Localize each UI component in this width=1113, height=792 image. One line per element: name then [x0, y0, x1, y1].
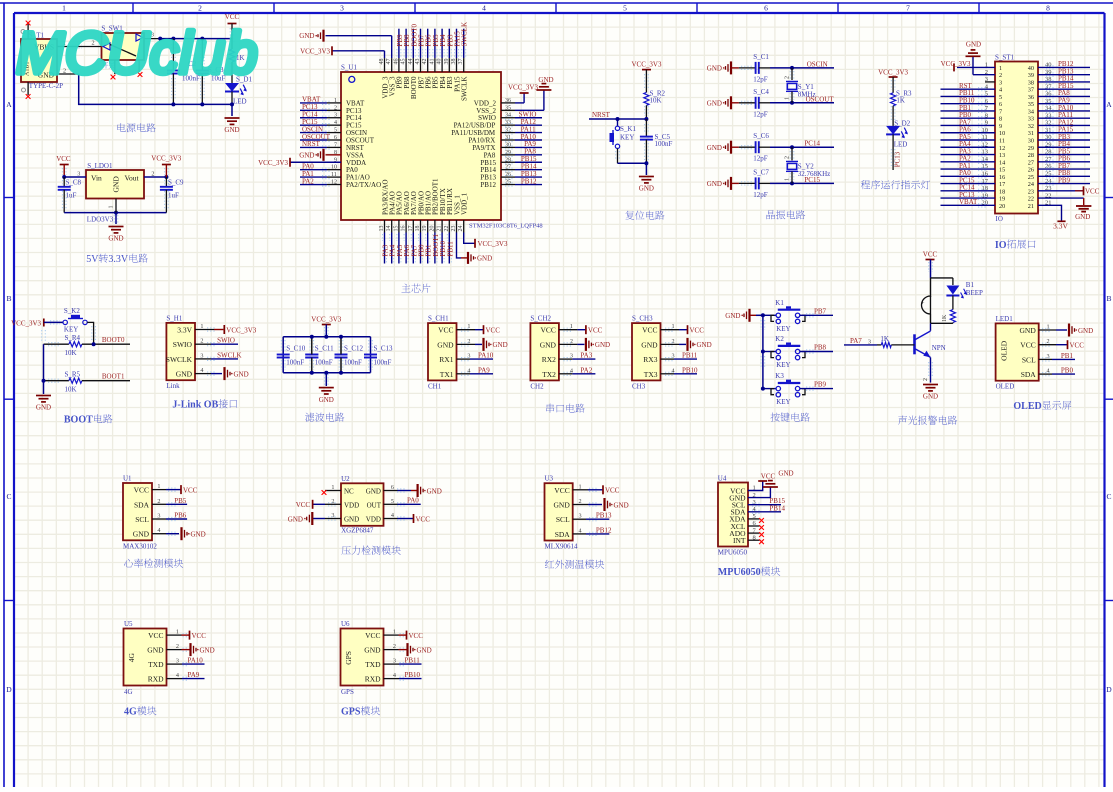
- svg-text:U3: U3: [545, 475, 554, 483]
- svg-text:CH2: CH2: [530, 382, 544, 390]
- svg-text:NRST: NRST: [302, 140, 321, 148]
- svg-text:100nF: 100nF: [655, 140, 673, 148]
- svg-text:S_C8: S_C8: [66, 179, 82, 187]
- svg-text:PA7: PA7: [850, 337, 862, 345]
- svg-text:1: 1: [785, 97, 791, 100]
- svg-text:VCC_3V3: VCC_3V3: [478, 240, 508, 248]
- svg-text:S_CH3: S_CH3: [632, 315, 653, 323]
- svg-text:GND: GND: [191, 531, 206, 539]
- svg-text:8: 8: [1046, 4, 1050, 13]
- svg-text:2: 2: [785, 76, 791, 79]
- svg-text:TXD: TXD: [365, 660, 381, 669]
- svg-text:VCC: VCC: [642, 326, 657, 335]
- svg-text:S_ST1: S_ST1: [995, 54, 1015, 62]
- svg-text:39: 39: [1028, 72, 1034, 79]
- svg-text:10K: 10K: [65, 386, 77, 394]
- svg-text:SCL: SCL: [556, 515, 570, 524]
- svg-text:VCC_3V3: VCC_3V3: [11, 320, 41, 328]
- svg-text:S_LDO1: S_LDO1: [87, 162, 113, 170]
- svg-text:S_CH1: S_CH1: [428, 315, 449, 323]
- svg-text:PC14: PC14: [804, 140, 820, 148]
- svg-text:3.3V: 3.3V: [1053, 221, 1068, 230]
- svg-text:GND: GND: [417, 646, 432, 654]
- svg-text:B: B: [1107, 294, 1112, 303]
- svg-text:PA0: PA0: [407, 497, 419, 505]
- svg-text:PB1: PB1: [1061, 352, 1074, 360]
- svg-text:28: 28: [1028, 152, 1034, 159]
- svg-text:U5: U5: [124, 620, 133, 628]
- svg-text:Link: Link: [166, 382, 180, 390]
- svg-text:SWIO: SWIO: [173, 340, 193, 349]
- svg-text:MPU6050: MPU6050: [718, 567, 761, 578]
- svg-text:PB12: PB12: [480, 181, 496, 189]
- svg-text:GND: GND: [966, 41, 981, 49]
- svg-text:S_U1: S_U1: [341, 64, 357, 72]
- svg-text:BOOT1: BOOT1: [102, 373, 125, 381]
- svg-text:4: 4: [482, 4, 486, 13]
- svg-text:K3: K3: [775, 372, 784, 380]
- svg-text:KEY: KEY: [776, 361, 790, 369]
- svg-text:33: 33: [1028, 116, 1034, 123]
- svg-text:VCC: VCC: [192, 632, 207, 640]
- svg-text:PB12: PB12: [596, 526, 612, 534]
- svg-text:GND: GND: [778, 470, 793, 478]
- svg-text:100nF: 100nF: [374, 359, 392, 367]
- svg-text:GND: GND: [641, 340, 658, 349]
- svg-text:GND: GND: [697, 341, 712, 349]
- svg-text:TX3: TX3: [644, 370, 658, 379]
- svg-text:38: 38: [1028, 79, 1034, 86]
- svg-text:GND: GND: [133, 530, 150, 539]
- svg-text:CH1: CH1: [428, 382, 442, 390]
- svg-text:22: 22: [1028, 196, 1034, 203]
- svg-text:1: 1: [109, 206, 115, 209]
- svg-text:VCC_3V3: VCC_3V3: [632, 61, 662, 69]
- svg-text:TXD: TXD: [148, 660, 164, 669]
- svg-text:OSCIN: OSCIN: [807, 60, 828, 68]
- svg-text:RX2: RX2: [542, 355, 556, 364]
- svg-text:VCC: VCC: [416, 515, 431, 523]
- svg-text:NRST: NRST: [592, 111, 611, 119]
- svg-text:9: 9: [999, 123, 1002, 130]
- svg-text:+: +: [921, 300, 925, 307]
- svg-text:VCC: VCC: [225, 13, 240, 21]
- svg-text:GND: GND: [614, 501, 629, 509]
- svg-text:GND: GND: [1075, 213, 1090, 221]
- svg-text:KEY: KEY: [776, 325, 790, 333]
- svg-text:PA9: PA9: [478, 366, 490, 374]
- svg-text:A: A: [6, 100, 12, 109]
- svg-text:PB10: PB10: [682, 366, 698, 374]
- svg-text:VCC_3V3: VCC_3V3: [878, 69, 908, 77]
- svg-text:PB10: PB10: [405, 671, 421, 679]
- svg-text:XGZP6847: XGZP6847: [341, 527, 374, 535]
- svg-text:1: 1: [785, 178, 791, 181]
- svg-text:VCC_3V3: VCC_3V3: [151, 155, 181, 163]
- svg-text:3: 3: [340, 4, 344, 13]
- svg-text:OLED: OLED: [996, 383, 1015, 391]
- svg-text:18: 18: [999, 188, 1005, 195]
- svg-text:GND: GND: [707, 144, 722, 152]
- svg-text:GND: GND: [538, 76, 553, 84]
- svg-text:PB5: PB5: [174, 497, 187, 505]
- svg-text:S_CH2: S_CH2: [530, 315, 551, 323]
- svg-text:16: 16: [999, 174, 1005, 181]
- svg-text:34: 34: [1028, 108, 1034, 115]
- svg-text:GND: GND: [299, 151, 314, 159]
- svg-text:MLX90614: MLX90614: [545, 543, 579, 551]
- svg-text:VCC: VCC: [923, 251, 938, 259]
- svg-text:GND: GND: [554, 501, 571, 510]
- svg-text:12pF: 12pF: [753, 110, 768, 118]
- svg-text:21: 21: [1028, 203, 1034, 210]
- svg-text:PB9: PB9: [814, 381, 827, 389]
- svg-text:GND: GND: [1020, 326, 1037, 335]
- svg-text:GND: GND: [707, 65, 722, 73]
- svg-text:SWCLK: SWCLK: [461, 77, 469, 102]
- svg-text:32.768KHz: 32.768KHz: [798, 170, 830, 178]
- svg-text:D: D: [6, 685, 12, 694]
- svg-text:RXD: RXD: [365, 675, 381, 684]
- svg-text:GND: GND: [299, 32, 314, 40]
- svg-text:GND: GND: [540, 340, 557, 349]
- svg-text:GND: GND: [366, 488, 381, 496]
- svg-text:100nF: 100nF: [315, 359, 333, 367]
- svg-text:VCC: VCC: [761, 473, 776, 481]
- svg-text:35: 35: [1028, 101, 1034, 108]
- svg-text:3.3V: 3.3V: [108, 254, 128, 265]
- svg-text:19: 19: [999, 196, 1005, 203]
- svg-text:VCC: VCC: [588, 327, 603, 335]
- svg-text:VCC_3V3: VCC_3V3: [300, 48, 330, 56]
- svg-text:RXD: RXD: [148, 675, 164, 684]
- svg-text:C: C: [7, 492, 12, 501]
- svg-text:20: 20: [999, 203, 1005, 210]
- svg-text:GND: GND: [224, 126, 239, 134]
- svg-text:12pF: 12pF: [753, 191, 768, 199]
- svg-text:3: 3: [868, 339, 871, 346]
- svg-text:VCC: VCC: [56, 155, 71, 163]
- svg-text:GND: GND: [147, 646, 164, 655]
- svg-text:SCL: SCL: [1022, 355, 1036, 364]
- svg-text:5V: 5V: [86, 254, 99, 265]
- svg-text:OLED: OLED: [1000, 340, 1009, 361]
- svg-text:NC: NC: [344, 488, 354, 496]
- svg-text:KEY: KEY: [64, 326, 78, 334]
- svg-text:GND: GND: [427, 487, 442, 495]
- svg-text:7: 7: [906, 4, 910, 13]
- svg-text:1K: 1K: [896, 97, 905, 105]
- svg-text:PA10: PA10: [478, 352, 494, 360]
- svg-text:4G: 4G: [124, 707, 137, 718]
- svg-text:5: 5: [623, 4, 627, 13]
- svg-text:10: 10: [999, 130, 1005, 137]
- svg-text:IO: IO: [996, 215, 1003, 223]
- svg-text:VDD: VDD: [366, 516, 381, 524]
- svg-text:GND: GND: [477, 254, 492, 262]
- svg-text:PB11: PB11: [446, 241, 454, 257]
- svg-text:STM32F103C8T6_LQFP48: STM32F103C8T6_LQFP48: [469, 223, 543, 230]
- svg-text:VCC: VCC: [541, 326, 556, 335]
- svg-text:S_K2: S_K2: [64, 307, 80, 315]
- svg-text:BOOT: BOOT: [64, 415, 93, 426]
- svg-text:TX2: TX2: [542, 370, 556, 379]
- svg-text:PB8: PB8: [814, 344, 827, 352]
- svg-text:4: 4: [999, 87, 1002, 94]
- svg-text:GND: GND: [437, 340, 454, 349]
- svg-text:17: 17: [999, 181, 1005, 188]
- svg-text:23: 23: [1028, 188, 1034, 195]
- svg-text:27: 27: [1028, 159, 1034, 166]
- svg-text:S_C1: S_C1: [753, 53, 769, 61]
- svg-text:29: 29: [1028, 145, 1034, 152]
- svg-text:GND: GND: [364, 646, 381, 655]
- svg-text:SWCLK: SWCLK: [166, 355, 193, 364]
- svg-text:Vout: Vout: [125, 174, 140, 183]
- svg-text:PB9: PB9: [1058, 176, 1071, 184]
- svg-text:GND: GND: [707, 100, 722, 108]
- svg-text:GND: GND: [344, 516, 359, 524]
- svg-text:15: 15: [999, 167, 1005, 174]
- svg-text:VCC_3V3: VCC_3V3: [226, 326, 256, 334]
- svg-text:VCC: VCC: [554, 486, 569, 495]
- svg-text:1uF: 1uF: [168, 192, 179, 200]
- svg-text:VDD: VDD: [344, 502, 359, 510]
- svg-text:7: 7: [999, 108, 1002, 115]
- svg-text:K1: K1: [775, 299, 784, 307]
- svg-text:8: 8: [999, 116, 1002, 123]
- svg-text:GND: GND: [36, 404, 51, 412]
- svg-text:3: 3: [999, 79, 1002, 86]
- svg-text:25: 25: [1028, 174, 1034, 181]
- svg-text:12: 12: [999, 145, 1005, 152]
- svg-text:CH3: CH3: [632, 382, 646, 390]
- svg-text:GND: GND: [595, 341, 610, 349]
- svg-text:GPS: GPS: [344, 651, 353, 665]
- svg-text:SWCLK: SWCLK: [461, 22, 469, 47]
- svg-text:SCL: SCL: [135, 515, 149, 524]
- svg-text:VCC: VCC: [1020, 341, 1035, 350]
- svg-text:26: 26: [1028, 167, 1034, 174]
- svg-text:VCC: VCC: [438, 326, 453, 335]
- svg-text:VCC_3V3: VCC_3V3: [508, 84, 538, 92]
- svg-text:VDD_1: VDD_1: [461, 192, 469, 215]
- svg-text:MAX30102: MAX30102: [123, 542, 157, 550]
- svg-text:1K: 1K: [880, 335, 889, 343]
- svg-text:2: 2: [198, 4, 202, 13]
- svg-text:VCC: VCC: [1070, 342, 1085, 350]
- svg-text:6: 6: [764, 4, 768, 13]
- svg-text:RX3: RX3: [643, 355, 657, 364]
- svg-text:MCUclub: MCUclub: [16, 21, 258, 86]
- svg-text:PB14: PB14: [769, 504, 785, 512]
- svg-text:BOOT0: BOOT0: [102, 336, 125, 344]
- svg-text:S_C10: S_C10: [286, 344, 306, 352]
- svg-text:S_C9: S_C9: [168, 179, 184, 187]
- svg-text:PB11: PB11: [682, 352, 698, 360]
- svg-text:13: 13: [999, 152, 1005, 159]
- svg-text:PA2/TX/AO: PA2/TX/AO: [346, 181, 381, 189]
- svg-text:100nF: 100nF: [286, 359, 304, 367]
- svg-text:32: 32: [1028, 123, 1034, 130]
- svg-text:GND: GND: [108, 235, 123, 243]
- svg-text:VCC_3V3: VCC_3V3: [941, 60, 971, 68]
- svg-text:VCC: VCC: [1085, 188, 1100, 196]
- svg-text:S_C11: S_C11: [315, 344, 334, 352]
- svg-text:VCC: VCC: [296, 501, 311, 509]
- svg-text:GND: GND: [319, 396, 334, 404]
- svg-text:GND: GND: [112, 176, 121, 193]
- svg-text:VCC: VCC: [365, 631, 380, 640]
- svg-text:GND: GND: [176, 370, 193, 379]
- svg-text:PA10: PA10: [188, 657, 204, 665]
- svg-text:2: 2: [923, 378, 929, 381]
- svg-text:VCC_3V3: VCC_3V3: [311, 316, 341, 324]
- svg-text:S_C6: S_C6: [753, 132, 769, 140]
- svg-text:PB13: PB13: [596, 512, 612, 520]
- svg-text:GND: GND: [639, 185, 654, 193]
- svg-text:PB7: PB7: [814, 307, 827, 315]
- svg-text:B: B: [7, 294, 12, 303]
- svg-text:2: 2: [785, 156, 791, 159]
- svg-text:PB12: PB12: [521, 177, 537, 185]
- svg-text:U6: U6: [341, 620, 350, 628]
- svg-text:12pF: 12pF: [753, 75, 768, 83]
- svg-text:14: 14: [999, 159, 1005, 166]
- svg-text:PB6: PB6: [174, 512, 187, 520]
- svg-text:24: 24: [1028, 181, 1034, 188]
- svg-text:GPS: GPS: [341, 707, 361, 718]
- svg-text:GPS: GPS: [341, 688, 354, 696]
- svg-text:PB0: PB0: [1061, 367, 1074, 375]
- svg-text:6: 6: [999, 101, 1002, 108]
- svg-text:S_C7: S_C7: [753, 168, 769, 176]
- svg-text:LDO3V3: LDO3V3: [87, 216, 114, 224]
- svg-text:VCC: VCC: [486, 327, 501, 335]
- svg-text:S_C13: S_C13: [374, 344, 394, 352]
- svg-text:100nF: 100nF: [344, 359, 362, 367]
- svg-text:VCC: VCC: [690, 327, 705, 335]
- svg-text:S_R5: S_R5: [65, 371, 81, 379]
- svg-text:5: 5: [999, 94, 1002, 101]
- svg-text:U4: U4: [718, 475, 727, 483]
- svg-text:GND: GND: [725, 312, 740, 320]
- svg-text:K2: K2: [775, 335, 784, 343]
- svg-text:GND: GND: [707, 180, 722, 188]
- svg-text:2: 2: [999, 72, 1002, 79]
- svg-text:Vin: Vin: [91, 174, 102, 183]
- svg-text:VCC_3V3: VCC_3V3: [258, 159, 288, 167]
- svg-text:11: 11: [999, 138, 1005, 145]
- svg-text:S_R4: S_R4: [65, 334, 81, 342]
- svg-text:SDA: SDA: [1021, 370, 1037, 379]
- svg-text:PA3: PA3: [580, 352, 592, 360]
- svg-text:KEY: KEY: [776, 398, 790, 406]
- svg-text:S_H1: S_H1: [166, 314, 182, 322]
- svg-text:U1: U1: [123, 475, 132, 483]
- svg-text:VCC: VCC: [134, 486, 149, 495]
- svg-text:4G: 4G: [124, 688, 133, 696]
- svg-text:PB11: PB11: [405, 657, 421, 665]
- svg-text:S_C12: S_C12: [344, 344, 364, 352]
- svg-text:12pF: 12pF: [753, 155, 768, 163]
- svg-text:OUT: OUT: [367, 502, 382, 510]
- svg-text:GND: GND: [923, 393, 938, 401]
- svg-text:U2: U2: [341, 475, 350, 483]
- svg-text:BEEP: BEEP: [966, 289, 983, 297]
- svg-text:RX1: RX1: [439, 355, 453, 364]
- svg-text:PA9: PA9: [188, 671, 200, 679]
- svg-text:MPU6050: MPU6050: [718, 549, 748, 557]
- svg-text:SWCLK: SWCLK: [217, 351, 242, 359]
- svg-text:S_K1: S_K1: [620, 125, 636, 133]
- svg-text:VCC: VCC: [183, 486, 198, 494]
- svg-text:40: 40: [1028, 65, 1034, 72]
- svg-text:LED: LED: [233, 98, 247, 106]
- svg-text:VCC: VCC: [605, 487, 620, 495]
- svg-text:1K: 1K: [942, 314, 948, 322]
- svg-text:KEY: KEY: [620, 134, 634, 142]
- svg-text:INT: INT: [733, 536, 746, 545]
- svg-text:VBAT: VBAT: [959, 198, 978, 206]
- svg-text:SWIO: SWIO: [217, 337, 235, 345]
- svg-text:8MHz: 8MHz: [798, 91, 816, 99]
- svg-text:D: D: [1106, 685, 1112, 694]
- svg-text:GND: GND: [234, 370, 249, 378]
- svg-text:4G: 4G: [127, 652, 136, 662]
- svg-text:B1: B1: [966, 281, 975, 289]
- svg-text:1: 1: [62, 4, 66, 13]
- svg-text:NPN: NPN: [932, 344, 946, 352]
- svg-text:30: 30: [1028, 138, 1034, 145]
- svg-text:36: 36: [1028, 94, 1034, 101]
- svg-text:31: 31: [1028, 130, 1034, 137]
- svg-text:SDA: SDA: [555, 530, 571, 539]
- svg-text:LED: LED: [894, 141, 908, 149]
- svg-text:GND: GND: [288, 515, 303, 523]
- svg-text:IO: IO: [995, 240, 1007, 251]
- svg-text:10K: 10K: [65, 349, 77, 357]
- svg-text:3.3V: 3.3V: [177, 326, 192, 335]
- svg-text:GND: GND: [493, 341, 508, 349]
- svg-text:10K: 10K: [650, 97, 662, 105]
- svg-text:1: 1: [999, 65, 1002, 72]
- svg-text:C: C: [1107, 492, 1112, 501]
- svg-text:TX1: TX1: [440, 370, 454, 379]
- svg-text:SDA: SDA: [134, 500, 150, 509]
- svg-text:PA2: PA2: [302, 177, 314, 185]
- svg-text:S_C4: S_C4: [753, 88, 769, 96]
- svg-text:VCC: VCC: [409, 632, 424, 640]
- svg-text:37: 37: [1028, 87, 1034, 94]
- svg-text:VCC: VCC: [148, 631, 163, 640]
- svg-text:J-Link OB: J-Link OB: [172, 400, 218, 411]
- svg-text:PA2: PA2: [580, 366, 592, 374]
- svg-text:1uF: 1uF: [66, 192, 77, 200]
- svg-text:GND: GND: [1078, 327, 1093, 335]
- svg-text:OLED: OLED: [1013, 401, 1041, 412]
- svg-text:LED1: LED1: [996, 315, 1014, 323]
- svg-text:A: A: [1106, 100, 1112, 109]
- svg-text:GND: GND: [200, 646, 215, 654]
